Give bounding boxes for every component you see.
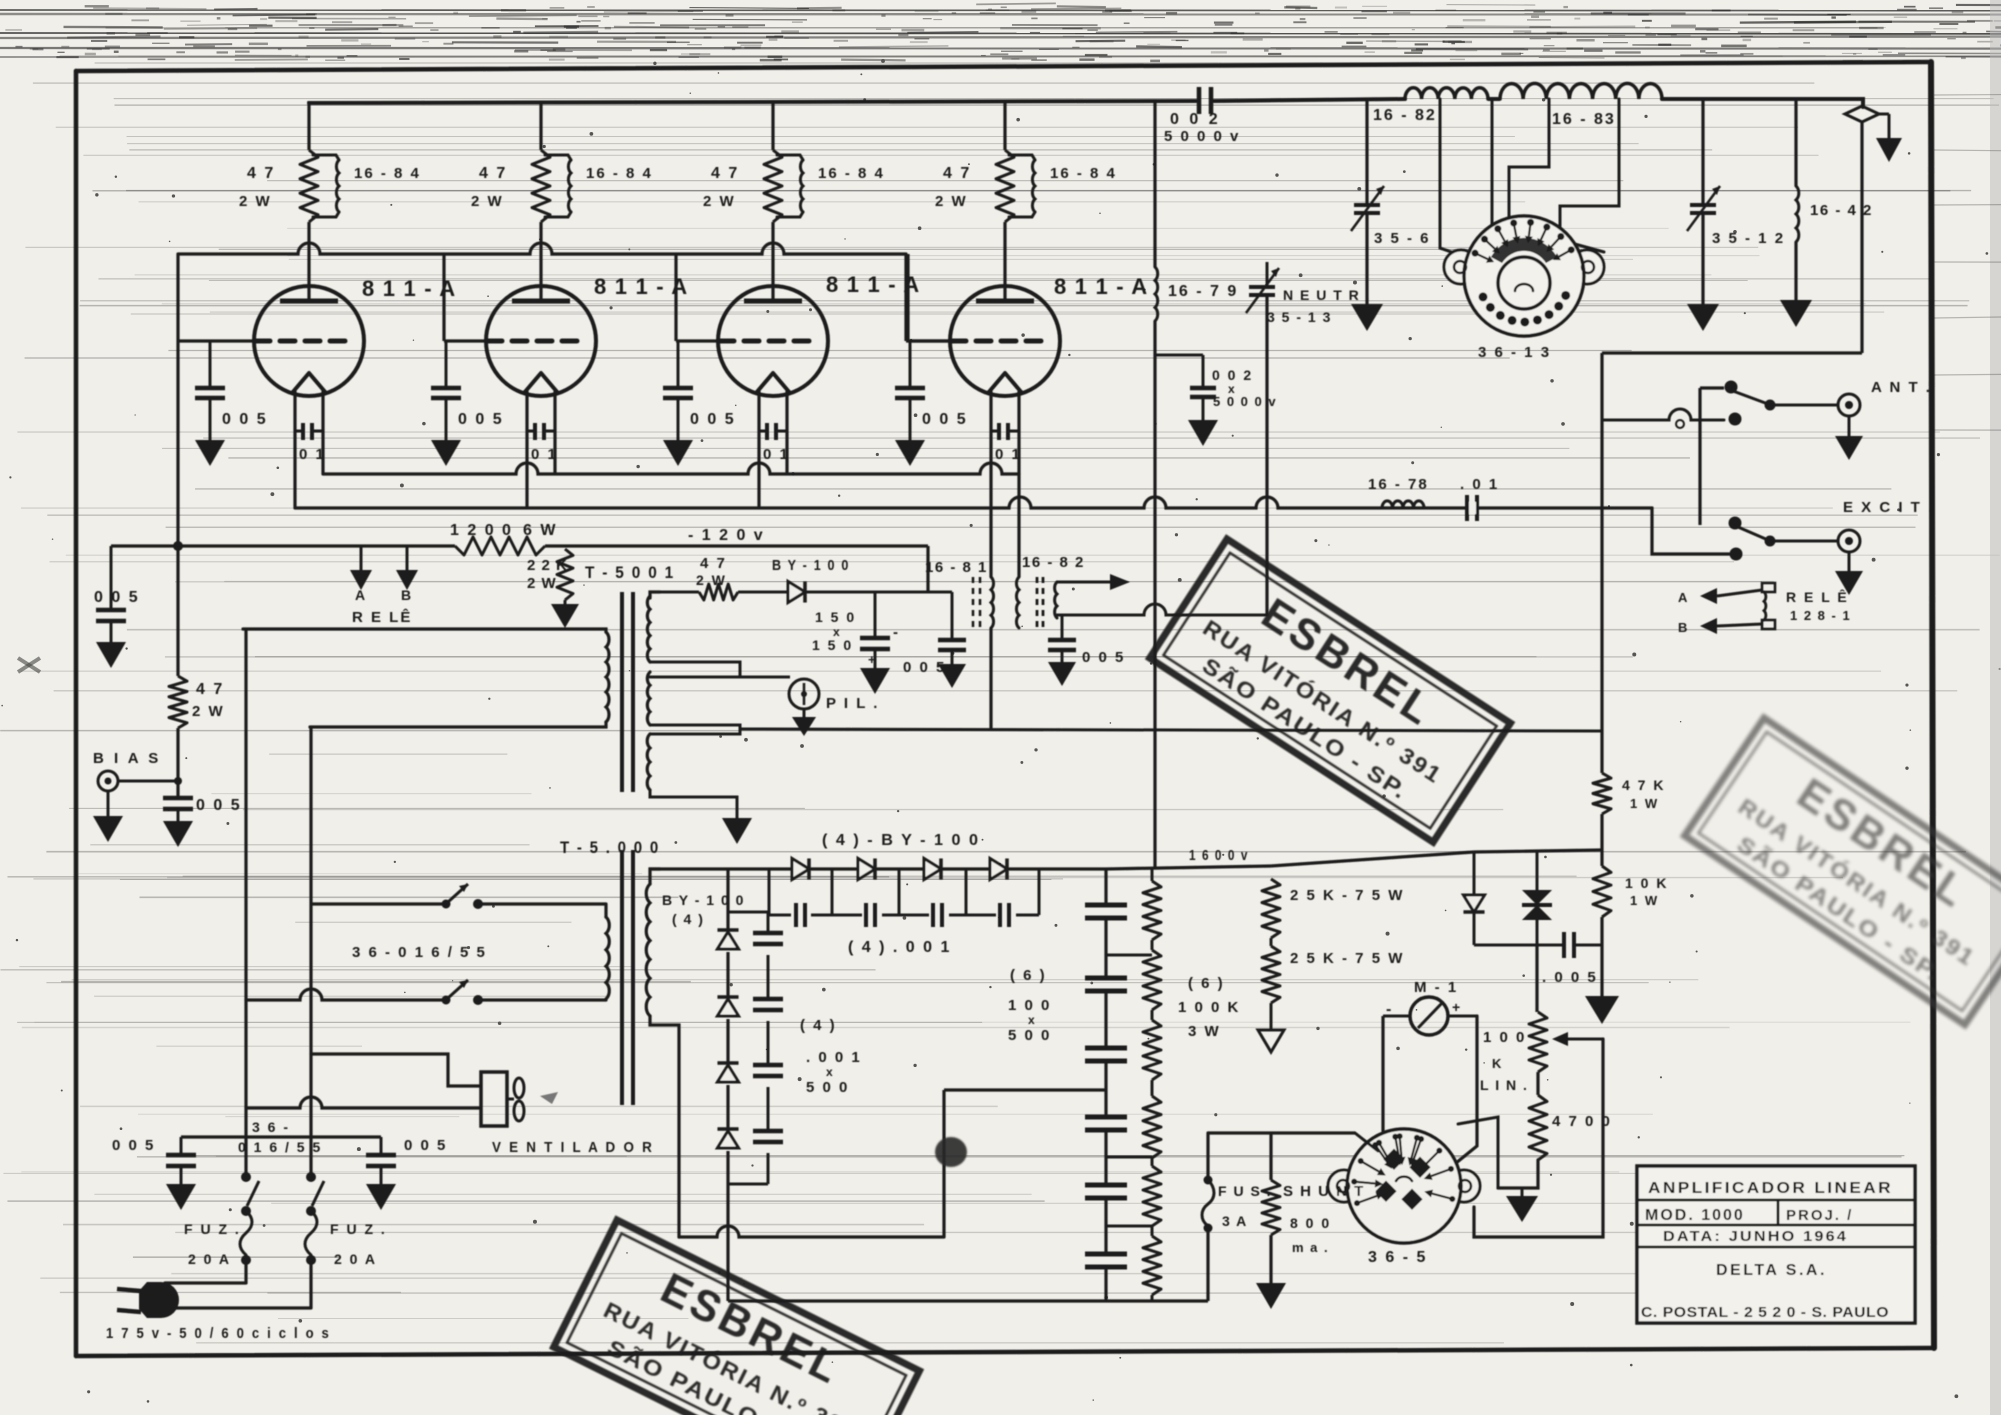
capacitor 150x150 (bias filter)	[812, 592, 899, 668]
resistor 47 2W (V4 grid/plate network)	[935, 150, 1014, 222]
wire 16-81 bottom	[989, 628, 992, 731]
resistor 47 2W (V1 grid/plate network)	[239, 150, 318, 222]
arrow to relay contact B	[396, 546, 418, 603]
resistor 10K 1W	[1593, 866, 1668, 917]
svg-text:5 0 0 0 v: 5 0 0 0 v	[1164, 128, 1240, 145]
ground (22K)	[551, 600, 579, 628]
svg-text:. 0 1: . 0 1	[1460, 476, 1499, 493]
ground (005 bias filter)	[938, 664, 966, 688]
tube V4 811-A	[950, 274, 1148, 396]
svg-text:16 - 8 4: 16 - 8 4	[586, 165, 653, 182]
ground (V2 grid bypass)	[431, 440, 461, 466]
svg-text:( 6 ): ( 6 )	[1010, 967, 1047, 984]
ground (35-6)	[1351, 304, 1383, 331]
wire T-5001 secondary top lead	[650, 592, 660, 598]
switch 36-016/55 (primary, lower pole)	[246, 980, 606, 1005]
svg-text:8 0 0: 8 0 0	[1290, 1215, 1331, 1231]
capacitor 100x500 #6 (filter)	[1085, 1252, 1127, 1257]
svg-text:1 2 8 - 1: 1 2 8 - 1	[1790, 608, 1851, 623]
label BY-100 (4)	[662, 892, 745, 927]
resistor 25K-75W #2	[1262, 938, 1404, 1003]
svg-text:x: x	[826, 1065, 834, 1079]
svg-text:3 6 -: 3 6 -	[252, 1119, 290, 1135]
svg-text:2 5 K - 7 5 W: 2 5 K - 7 5 W	[1290, 887, 1404, 904]
label (5) 100K 3W	[1178, 975, 1240, 1040]
mains plug 115v	[106, 1282, 331, 1342]
wiper arrow (100K pot)	[1552, 1032, 1603, 1046]
svg-text:1 6 0 0 v: 1 6 0 0 v	[1189, 847, 1249, 864]
svg-text:A: A	[355, 587, 366, 603]
ground (V4 grid bypass)	[895, 440, 925, 466]
tube V3 811-A	[718, 272, 920, 396]
wire filament bus upper	[323, 463, 1019, 474]
wire bias line to 47K	[740, 729, 1602, 731]
capacitor 002 5000v (series, plate bus)	[1164, 87, 1240, 145]
choke 16-82 (filament)	[1016, 554, 1084, 628]
svg-text:0 0 5: 0 0 5	[690, 411, 736, 428]
resistor 47 2W (V3 grid/plate network)	[703, 150, 782, 222]
wire plate lead V4	[1003, 222, 1006, 301]
svg-text:( 6 ): ( 6 )	[1188, 975, 1225, 992]
svg-text:2 W: 2 W	[703, 193, 736, 210]
wire filament legs V2	[525, 391, 528, 508]
svg-text:DATA: JUNHO 1964: DATA: JUNHO 1964	[1663, 1228, 1848, 1245]
wire fan feed upper	[311, 1054, 481, 1086]
wire T-5001 primary top	[243, 629, 606, 632]
arrow relay terminal B	[1678, 618, 1762, 635]
svg-text:2 W: 2 W	[192, 703, 225, 720]
wire rectifier top line 1600v	[649, 847, 1249, 869]
capacitor 100x500 #3 (filter)	[1085, 1046, 1127, 1051]
connector BIAS	[93, 750, 182, 791]
svg-text:0 1: 0 1	[299, 446, 326, 463]
label 36-016/55 (lower)	[238, 1119, 322, 1155]
svg-text:0 0 5: 0 0 5	[94, 589, 140, 606]
resistor 47 2W (bias supply)	[660, 555, 738, 600]
capacitor .001 #2 (equalizing)	[864, 903, 868, 927]
wire output drop to antenna relay	[1860, 121, 1863, 353]
svg-text:F U Z .: F U Z .	[184, 1221, 241, 1237]
svg-text:PROJ. /: PROJ. /	[1786, 1207, 1853, 1224]
diode back-to-back (meter protection)	[1522, 852, 1552, 945]
svg-text:8 1 1 - A: 8 1 1 - A	[594, 274, 688, 299]
wire grid bus	[178, 243, 950, 341]
svg-text:. 0 0 5: . 0 0 5	[1542, 969, 1598, 986]
label (4) .001x500	[800, 1017, 862, 1096]
svg-text:E X C I T .: E X C I T .	[1843, 499, 1934, 516]
wire -120v rail	[111, 527, 928, 592]
svg-text:2 0 A: 2 0 A	[334, 1251, 377, 1267]
tube V2 811-A	[486, 274, 688, 396]
wire V4 right-leg drop	[1017, 474, 1020, 577]
wire meter leads	[1383, 1016, 1477, 1150]
svg-text:3 6 - 1 3: 3 6 - 1 3	[1478, 344, 1551, 361]
wire grid lead V1	[178, 339, 255, 342]
wire line cap bus	[181, 1135, 381, 1138]
potentiometer 100K LIN.	[1480, 945, 1547, 1093]
svg-text:8 1 1 - A: 8 1 1 - A	[1054, 274, 1148, 299]
svg-text:ANPLIFICADOR LINEAR: ANPLIFICADOR LINEAR	[1648, 1180, 1893, 1197]
resistor 47 2W (V2 grid/plate network)	[471, 150, 550, 222]
svg-text:3 6 - 0 1 6 / 5 5: 3 6 - 0 1 6 / 5 5	[352, 944, 487, 961]
svg-text:B: B	[1678, 620, 1688, 635]
choke 16-79 (plate RF)	[1155, 267, 1238, 321]
svg-text:2 W: 2 W	[471, 193, 504, 210]
svg-text:0 1: 0 1	[763, 446, 790, 463]
relay coil RELE 128-1	[1762, 583, 1851, 629]
ground (ANT jack)	[1835, 416, 1863, 460]
svg-text:1 0 0: 1 0 0	[1483, 1029, 1526, 1046]
diode BY-100 #2 (series string)	[858, 858, 875, 879]
ground (16-42)	[1780, 300, 1812, 327]
wire filter ties	[1106, 955, 1152, 1226]
svg-text:1 2 0 0: 1 2 0 0	[450, 522, 513, 539]
ground (V3 grid bypass)	[663, 440, 693, 466]
inductor 16-78 (filament line)	[1368, 476, 1429, 508]
inductor 16-84 (V3)	[777, 155, 885, 217]
capacitor 01 (V2 filament)	[527, 423, 558, 463]
svg-text:C. POSTAL - 2 5 2 0 - S. PAULO: C. POSTAL - 2 5 2 0 - S. PAULO	[1641, 1304, 1889, 1321]
svg-text:0 0 5: 0 0 5	[222, 411, 268, 428]
svg-text:0 0 5: 0 0 5	[922, 411, 968, 428]
arrow 16-82 output	[1057, 574, 1130, 590]
title block	[1637, 1166, 1915, 1323]
svg-text:0 0 5: 0 0 5	[404, 1137, 447, 1154]
diode BY-100 #4 (series string)	[990, 858, 1007, 879]
ground (4700)	[1506, 1188, 1538, 1222]
svg-text:A N T .: A N T .	[1871, 379, 1932, 396]
capacitor 100x500 #1 (filter)	[1085, 903, 1127, 908]
diode BY-100 #6 (shunt string)	[717, 995, 738, 999]
wire wiper return to socket	[1474, 1039, 1603, 1237]
capacitor 005 (bias filter)	[903, 592, 966, 676]
svg-text:4 7: 4 7	[247, 165, 275, 182]
socket 36-5	[1328, 1129, 1480, 1266]
RF output connector (arrow)	[1845, 106, 1902, 162]
capacitor .001x500 #2	[753, 997, 783, 1002]
wire T-5000 primary bottom	[604, 999, 607, 1000]
capacitor .001x500 #1	[753, 931, 783, 936]
svg-text:3 6 - 5: 3 6 - 5	[1368, 1249, 1427, 1266]
svg-text:0 0 5: 0 0 5	[196, 797, 242, 814]
wire relay common	[1700, 388, 1724, 525]
resistor 1200 6W	[450, 522, 557, 555]
svg-text:( 4 ): ( 4 )	[672, 911, 704, 927]
svg-text:+: +	[1452, 999, 1461, 1015]
wire filament legs V3	[757, 391, 760, 508]
wire socket cathode line	[1208, 1133, 1378, 1151]
ground (line cap right)	[366, 1184, 396, 1210]
wire EXCIT NC branch	[1652, 508, 1729, 554]
wire T-5000 secondary bottom	[650, 1016, 679, 1237]
rotary switch 36-13 (bandswitch)	[1444, 216, 1604, 361]
wire filament legs V4	[989, 391, 992, 508]
svg-text:M - 1: M - 1	[1414, 979, 1458, 996]
diode BY-100 (bias rectifier)	[738, 557, 875, 603]
wire 16-82 bottom line	[1057, 604, 1267, 615]
svg-text:F U Z .: F U Z .	[330, 1221, 387, 1237]
svg-text:B Y - 1 0 0: B Y - 1 0 0	[772, 557, 850, 574]
relay contact ANT (armature)	[1725, 381, 1839, 426]
svg-text:3 5 - 1 3: 3 5 - 1 3	[1267, 309, 1332, 325]
wire plate feed V3	[771, 101, 774, 150]
motor VENTILADOR	[481, 1072, 654, 1156]
svg-text:1 0 K: 1 0 K	[1625, 875, 1668, 891]
wire bandswitch feeds	[1440, 99, 1619, 262]
svg-text:16 - 8 4: 16 - 8 4	[818, 165, 885, 182]
ground (shunt)	[1256, 1283, 1286, 1309]
ground (line cap left)	[166, 1184, 196, 1210]
wire bias rail lower	[176, 728, 179, 798]
svg-text:2 5 K - 7 5 W: 2 5 K - 7 5 W	[1290, 950, 1404, 967]
diode BY-100 #7 (shunt string)	[717, 1061, 738, 1065]
capacitor .01 (series, filament line)	[1460, 476, 1499, 521]
ground (meter branch)	[1585, 996, 1619, 1024]
stamp ESBREL (center)	[1150, 539, 1511, 842]
resistor SHUNT 800ma	[1262, 1133, 1365, 1283]
wire T-5001 secondary bottom to ground	[650, 790, 737, 818]
svg-text:4 7 K: 4 7 K	[1622, 777, 1665, 793]
svg-text:N E U T R .: N E U T R .	[1283, 287, 1371, 303]
diode BY-100 #3 (series string)	[924, 858, 941, 879]
wire shunt cap string	[728, 912, 768, 1184]
wire rectifier left string	[726, 869, 729, 930]
arrow to relay contact A	[350, 546, 372, 603]
svg-text:0 0 5: 0 0 5	[458, 411, 504, 428]
wire plug to fuses	[165, 1283, 311, 1308]
stamp ESBREL (right)	[1685, 718, 2001, 1025]
capacitor 005 (-120v rail left)	[94, 546, 140, 642]
stamp ESBREL (bottom)	[554, 1220, 920, 1415]
svg-text:1 W: 1 W	[1630, 796, 1659, 811]
diode (meter protection)	[1463, 852, 1484, 945]
resistor 47 2W (bias feed)	[169, 676, 225, 728]
svg-text:2 0 A: 2 0 A	[188, 1251, 231, 1267]
wire meter return to socket	[1456, 1016, 1477, 1163]
capacitor 002x5000v (plate bypass)	[1155, 355, 1277, 420]
switch 36-016/55 (primary, upper pole)	[311, 884, 606, 917]
lamp PIL.	[740, 677, 879, 736]
svg-text:0 1: 0 1	[531, 446, 558, 463]
connector ANT.	[1838, 379, 1932, 416]
meter M-1	[1386, 979, 1461, 1035]
svg-text:P I L .: P I L .	[826, 695, 879, 712]
capacitor NEUTR. 35-13 (variable)	[1246, 262, 1371, 615]
ground (EXCIT jack)	[1835, 552, 1863, 595]
ground (150x150)	[860, 668, 890, 694]
wire fan feed lower	[246, 1097, 481, 1108]
svg-text:0 1: 0 1	[995, 446, 1022, 463]
inductor 16-42	[1796, 99, 1873, 300]
svg-text:( 4 ): ( 4 )	[800, 1017, 837, 1034]
resistor 4700	[1529, 1072, 1612, 1160]
svg-text:2 W: 2 W	[696, 572, 727, 588]
label (6) 100x500	[1008, 967, 1051, 1044]
transformer T-5001	[585, 563, 675, 792]
svg-text:1 0 0: 1 0 0	[1008, 997, 1051, 1014]
diode BY-100 #5 (shunt string)	[717, 928, 738, 932]
wire mains rail left	[246, 629, 311, 1177]
ground (bias cap)	[163, 821, 193, 847]
capacitor 005 (V2 grid bypass)	[431, 341, 504, 440]
svg-text:1 W: 1 W	[1630, 893, 1659, 908]
capacitor 35-12 (variable tank)	[1687, 99, 1785, 304]
svg-text:0 0 5: 0 0 5	[112, 1137, 155, 1154]
capacitor 005 (line, right)	[366, 1137, 447, 1184]
wire filament bus lower	[295, 497, 1652, 508]
capacitor 100x500 #5 (filter)	[1085, 1183, 1127, 1188]
ink blot	[935, 1137, 967, 1167]
svg-text:L I N .: L I N .	[1480, 1077, 1528, 1093]
svg-text:V E N T I L A D O R: V E N T I L A D O R	[492, 1139, 654, 1156]
svg-text:3 5 - 1 2: 3 5 - 1 2	[1712, 230, 1785, 247]
fuse FUS. 3A	[1202, 1133, 1272, 1301]
svg-text:DELTA S.A.: DELTA S.A.	[1716, 1262, 1827, 1279]
svg-text:0 0 2: 0 0 2	[1170, 111, 1221, 128]
svg-text:MOD. 1000: MOD. 1000	[1645, 1207, 1745, 1224]
wire plate feed V1	[307, 101, 310, 150]
svg-text:2 W: 2 W	[239, 193, 272, 210]
svg-text:4 7: 4 7	[196, 681, 224, 698]
wire grid lead V3	[676, 339, 719, 342]
svg-text:T - 5 0 0 1: T - 5 0 0 1	[585, 563, 675, 582]
svg-text:B Y - 1 0 0: B Y - 1 0 0	[662, 892, 745, 908]
svg-text:1 5 0: 1 5 0	[812, 637, 853, 653]
inductor 16-82 (tank coil)	[1373, 88, 1488, 124]
svg-text:16 - 83: 16 - 83	[1552, 111, 1616, 128]
svg-text:A: A	[1678, 590, 1688, 605]
wire T-5001 filament taps	[650, 662, 740, 734]
wire left grid rail	[176, 254, 179, 676]
capacitor .001x500 #4	[753, 1129, 783, 1134]
svg-text:R E L Ê: R E L Ê	[1786, 588, 1849, 605]
svg-text:16 - 8 2: 16 - 8 2	[1022, 554, 1085, 571]
ground (BIAS jack)	[93, 791, 123, 842]
wire HV feed (B+)	[1153, 101, 1156, 869]
capacitor .001 #4 (equalizing)	[998, 903, 1002, 927]
wire plate feed V4	[1003, 101, 1006, 150]
wire equalizing cap row	[769, 869, 1039, 915]
wire T-5000 secondary top	[650, 869, 660, 884]
wire plate lead V2	[539, 222, 542, 301]
svg-text:16 - 7 9: 16 - 7 9	[1168, 283, 1238, 300]
svg-text:( 4 ) - B Y - 1 0 0: ( 4 ) - B Y - 1 0 0	[822, 832, 980, 849]
svg-text:. 0 0 1: . 0 0 1	[806, 1049, 862, 1066]
capacitor 005 (heater bypass)	[1048, 615, 1125, 666]
capacitor 005 (line, left)	[112, 1137, 196, 1184]
svg-text:T - 5 . 0 0 0: T - 5 . 0 0 0	[560, 838, 660, 857]
svg-text:16 - 82: 16 - 82	[1373, 107, 1437, 124]
svg-text:4 7: 4 7	[943, 165, 971, 182]
svg-text:5 0 0: 5 0 0	[806, 1079, 849, 1096]
capacitor .001x500 #3	[753, 1063, 783, 1068]
svg-text:2 W: 2 W	[527, 575, 557, 592]
svg-text:0 0 2: 0 0 2	[1212, 367, 1253, 383]
capacitor 01 (V4 filament)	[991, 423, 1022, 463]
capacitor 01 (V3 filament)	[759, 423, 790, 463]
svg-text:0 0 5: 0 0 5	[903, 659, 946, 676]
wire T-5001 primary bottom	[310, 722, 606, 727]
connector EXCIT.	[1838, 499, 1934, 552]
svg-text:m a .: m a .	[1292, 1240, 1329, 1255]
inductor 16-84 (V1)	[313, 155, 421, 217]
svg-text:3 W: 3 W	[1188, 1023, 1221, 1040]
svg-text:16 - 78: 16 - 78	[1368, 476, 1429, 493]
wire rectifier return	[679, 1090, 1106, 1237]
ground (T-5001 center tap)	[722, 818, 752, 844]
capacitor 005 (V3 grid bypass)	[663, 341, 736, 440]
svg-text:0 1 6 / 5 5: 0 1 6 / 5 5	[238, 1139, 322, 1155]
tube V1 811-A	[254, 276, 456, 396]
svg-text:1 7 5 v - 5 0 / 6 0 c i c l o: 1 7 5 v - 5 0 / 6 0 c i c l o s	[106, 1325, 331, 1342]
diode BY-100 #1 (series string)	[792, 858, 809, 879]
wire 10K to ground node	[1600, 917, 1603, 996]
fuse FUZ. 20A (right) with switch	[305, 1172, 387, 1308]
svg-text:2 2 K: 2 2 K	[527, 557, 568, 574]
ground (25K bleeder, open)	[1258, 1003, 1284, 1052]
diode BY-100 #8 (shunt string)	[717, 1127, 738, 1131]
relay contact EXCIT (armature)	[1729, 517, 1839, 561]
svg-text:3 5 - 6: 3 5 - 6	[1374, 230, 1431, 247]
wire plate feed V2	[539, 101, 542, 150]
svg-text:8 1 1 - A: 8 1 1 - A	[362, 276, 456, 301]
svg-text:3 A: 3 A	[1222, 1213, 1248, 1229]
wire plate lead V3	[771, 222, 774, 301]
resistor 47K 1W	[1593, 773, 1665, 814]
capacitor 01 (V1 filament)	[295, 423, 326, 463]
svg-text:x: x	[1028, 1013, 1036, 1027]
svg-text:6 W: 6 W	[523, 522, 557, 539]
svg-text:1 0 0 K: 1 0 0 K	[1178, 999, 1240, 1016]
capacitor 005 (bias)	[163, 797, 242, 821]
inductor 16-84 (V4)	[1009, 155, 1117, 217]
choke 16-81	[925, 508, 994, 628]
svg-text:0 0 5: 0 0 5	[1082, 649, 1125, 666]
wire plate lead V1	[307, 222, 310, 301]
svg-text:2 W: 2 W	[935, 193, 968, 210]
resistor bleeder chain 100K 3W (x6)	[1143, 869, 1161, 1301]
arrow relay terminal A	[1678, 588, 1762, 605]
resistor 22K 2W (to ground)	[527, 549, 573, 600]
wire bias filter node	[875, 591, 952, 594]
capacitor 35-6 (variable tank)	[1351, 99, 1431, 304]
wire output to relay	[1602, 353, 1862, 773]
ground (plate bypass)	[1188, 420, 1218, 446]
capacitor 005 (V1 grid bypass)	[195, 341, 268, 440]
wire filament legs V1	[293, 391, 296, 508]
svg-text:16 - 8 4: 16 - 8 4	[1050, 165, 1117, 182]
svg-text:4 7: 4 7	[700, 555, 727, 572]
svg-text:16 - 8 4: 16 - 8 4	[354, 165, 421, 182]
svg-text:4 7: 4 7	[711, 165, 739, 182]
transformer T-5000	[560, 838, 660, 1105]
inductor 16-84 (V2)	[545, 155, 653, 217]
svg-text:K: K	[1492, 1056, 1502, 1071]
svg-text:S H U N T: S H U N T	[1283, 1183, 1365, 1200]
svg-text:-: -	[893, 624, 899, 641]
inductor 16-83 (tank coil)	[1500, 83, 1662, 128]
svg-text:R E LÊ: R E LÊ	[352, 608, 412, 626]
capacitor 005 (V4 grid bypass)	[895, 341, 968, 440]
capacitor 005 (meter bypass)	[1542, 932, 1602, 986]
ground (35-12)	[1687, 304, 1719, 331]
svg-text:B: B	[401, 587, 412, 603]
svg-text:B I A S: B I A S	[93, 750, 161, 767]
ground (heater bypass)	[1048, 662, 1076, 686]
wire top plate bus	[309, 99, 1863, 107]
svg-text:4 7: 4 7	[479, 165, 507, 182]
wire meter shunt node	[1474, 944, 1564, 947]
